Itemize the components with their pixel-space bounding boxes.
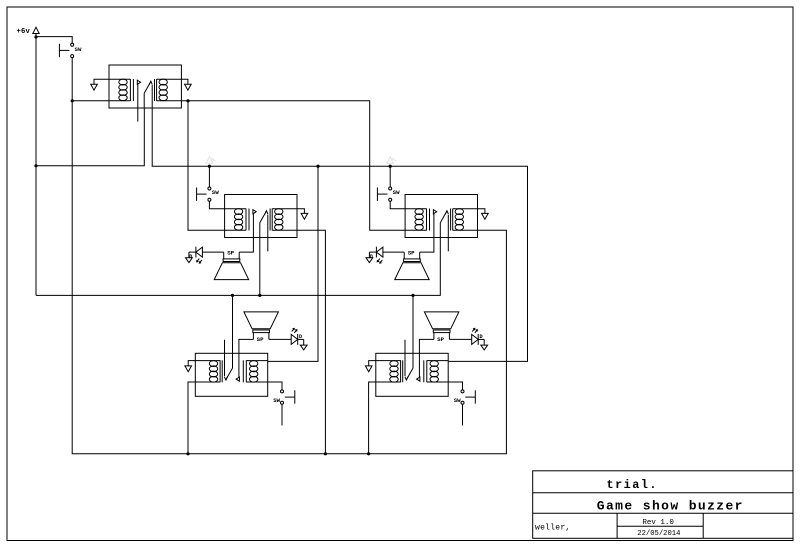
speaker SP1 xyxy=(214,252,249,280)
wire RL3 contact to speaker SP2 xyxy=(420,238,434,253)
wire RL5 top-left terminal xyxy=(369,361,376,366)
speaker SP2 xyxy=(395,252,430,280)
wire RL4 coil to SW4 xyxy=(268,382,282,390)
wire RL1 top-left terminal xyxy=(94,79,109,84)
switch SW1 xyxy=(59,43,73,57)
wire RL1 top-right terminal xyxy=(181,79,188,84)
wire RL3 hinge stub xyxy=(447,238,449,252)
title block frame xyxy=(533,471,793,539)
wire SP1 to LED D1 xyxy=(202,251,223,253)
relay RL3 xyxy=(405,195,477,238)
relay RL4 xyxy=(195,353,267,396)
junction RL5 bottom bus tap xyxy=(367,452,370,455)
wire RL3 coil bottom to bottom bus xyxy=(72,101,506,454)
terminal arrow RL3 right xyxy=(482,213,489,219)
junction RL4 bottom bus tap xyxy=(186,452,189,455)
relay RL5 xyxy=(376,353,448,396)
wire RL2 coil bottom to lower bus xyxy=(297,230,325,454)
terminal arrow RL1 right xyxy=(185,84,192,90)
svg-text:weller,: weller, xyxy=(535,523,571,532)
LED D3 xyxy=(291,328,307,350)
wire SW4 open stub xyxy=(281,404,283,425)
svg-text:D: D xyxy=(299,334,302,340)
wire feed mid-left relay coil bottom xyxy=(188,101,225,230)
junction SW1 bottom node xyxy=(71,99,74,102)
wire RL1 contact stub xyxy=(137,108,139,122)
wire SP2 to LED D2 xyxy=(383,251,404,253)
terminal arrow RL5 left xyxy=(365,366,372,372)
wire RL1 armature to left bus xyxy=(36,108,144,166)
wire RL5 coil to SW5 xyxy=(448,382,462,390)
power symbol +6v arrow xyxy=(33,27,39,37)
speaker SP4 xyxy=(424,312,459,340)
wire SP3 to LED D3 xyxy=(269,338,291,340)
LED D1 xyxy=(186,247,203,263)
wire RL5 coil bottom-left to bottom bus xyxy=(369,382,376,454)
wire SP4 to LED D4 xyxy=(449,338,471,340)
wire RL2 hinge stub xyxy=(267,238,269,252)
svg-text:trial.: trial. xyxy=(607,478,658,492)
wire SW2 to relay RL2 coil top xyxy=(209,201,224,208)
wire RL3 top-right terminal xyxy=(478,209,485,214)
wire RL5 contact to speaker SP4 xyxy=(419,339,434,353)
svg-text:D: D xyxy=(480,334,483,340)
switch SW3 xyxy=(377,187,391,201)
svg-text:SP: SP xyxy=(408,250,415,257)
wire bus to SW3 xyxy=(389,166,391,187)
relay RL1 xyxy=(109,65,181,108)
title block divider left xyxy=(616,513,618,538)
svg-text:SW: SW xyxy=(393,189,400,196)
title block row line 1 xyxy=(533,492,793,494)
svg-text:SW: SW xyxy=(454,397,461,404)
LED D4 xyxy=(472,328,488,350)
terminal arrow RL4 left xyxy=(185,366,192,372)
wire RL4 contact to speaker SP3 xyxy=(239,339,254,353)
svg-text:Rev 1.0: Rev 1.0 xyxy=(642,519,674,527)
wire left bus vertical x36 xyxy=(35,37,37,295)
junction RL2 armature tap xyxy=(258,294,261,297)
svg-text:+6v: +6v xyxy=(17,28,31,36)
wire bus to relay RL4 armature xyxy=(232,295,234,353)
junction speaker SP3 feed tap xyxy=(231,294,234,297)
junction bus SW2 tap xyxy=(208,165,211,168)
wire RL2 armature to bus y295.4 xyxy=(259,238,261,296)
wire RL1 coil bottom to mid relays feed xyxy=(181,101,405,230)
wire bus to relay RL5 armature xyxy=(412,295,414,353)
wire RL5 hinge stub xyxy=(404,340,406,354)
ghost arrow at SW3 tap xyxy=(387,157,396,164)
svg-text:SP: SP xyxy=(437,336,444,343)
switch SW5 xyxy=(461,390,475,404)
title block row line 2 xyxy=(533,512,793,514)
terminal arrow RL2 right xyxy=(301,213,308,219)
wire SW1 to bottom-left of relay RL1 xyxy=(72,58,109,101)
relay RL2 xyxy=(225,195,297,238)
title block divider right xyxy=(702,513,704,538)
speaker SP3 xyxy=(244,312,279,340)
svg-text:D: D xyxy=(370,254,373,260)
wire SW5 open stub xyxy=(462,404,464,425)
ghost arrow at SW2 tap xyxy=(206,157,215,164)
terminal arrow RL1 left xyxy=(91,84,98,90)
switch SW2 xyxy=(197,187,211,201)
wire bus to bottom-left relay upper-right xyxy=(268,166,318,361)
LED D2 xyxy=(366,247,383,263)
svg-text:SW: SW xyxy=(75,46,82,53)
wire +6v to SW1 xyxy=(36,37,72,44)
junction bus A tap xyxy=(316,165,319,168)
wire bus to SW2 xyxy=(208,166,210,187)
junction RL2 bottom bus tap xyxy=(324,452,327,455)
switch SW4 xyxy=(281,390,295,404)
title block rev divider xyxy=(617,525,703,527)
svg-text:Game show buzzer: Game show buzzer xyxy=(597,498,744,513)
wire RL2 contact to speaker SP1 xyxy=(239,238,253,253)
wire RL3 armature to bus y295.4 xyxy=(36,238,440,296)
svg-text:D: D xyxy=(189,254,192,260)
wire RL4 hinge stub xyxy=(224,340,226,354)
junction RL1 bottom-right node xyxy=(186,99,189,102)
wire SW3 to relay RL3 coil top xyxy=(390,201,405,208)
svg-text:SW: SW xyxy=(273,397,280,404)
wire RL4 top-left terminal xyxy=(188,361,195,366)
svg-text:SW: SW xyxy=(212,189,219,196)
wire RL2 top-right terminal xyxy=(297,209,304,214)
wire RL1 hinge to main bus y166.2 xyxy=(152,108,527,361)
wire RL4 coil bottom-left to bottom bus xyxy=(188,382,195,454)
junction +6v node xyxy=(34,35,37,38)
junction bus SW3 tap xyxy=(389,165,392,168)
svg-text:SP: SP xyxy=(257,336,264,343)
svg-text:SP: SP xyxy=(227,250,234,257)
junction speaker SP4 feed tap xyxy=(411,294,414,297)
svg-text:22/05/2014: 22/05/2014 xyxy=(637,530,680,538)
junction bus x36 y165.8 xyxy=(34,164,37,167)
